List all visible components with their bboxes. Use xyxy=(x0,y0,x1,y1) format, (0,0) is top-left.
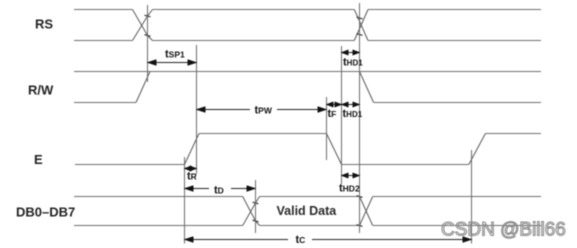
E falling edge xyxy=(327,134,342,165)
RS crossover 2 tick marks xyxy=(357,17,363,35)
label Valid Data xyxy=(277,204,338,218)
watermark CSDN @Bill66 xyxy=(441,220,566,241)
arrow tD right part xyxy=(231,188,256,190)
label tD xyxy=(214,185,224,197)
arrow tPW left part xyxy=(197,109,251,111)
svg-text:RS: RS xyxy=(35,17,53,32)
arrow tHD1 upper xyxy=(342,52,360,54)
RS waveform rails xyxy=(74,10,541,41)
arrow tSP1 xyxy=(148,62,197,64)
svg-text:E: E xyxy=(34,152,43,167)
E rising edge 2 xyxy=(469,134,486,165)
arrow tC right part xyxy=(312,239,472,241)
R/W waveform low rail right xyxy=(374,102,541,104)
svg-text:tHD1: tHD1 xyxy=(343,108,363,120)
arrow tR xyxy=(185,168,197,170)
svg-text:DB0–DB7: DB0–DB7 xyxy=(16,205,75,220)
measurement line L2 x=196.6 xyxy=(196,45,198,174)
R/W waveform high rail xyxy=(74,71,541,73)
DB waveform rails right xyxy=(373,197,541,226)
svg-text:CSDN @Bill66: CSDN @Bill66 xyxy=(441,220,566,241)
svg-text:tF: tF xyxy=(328,108,337,120)
DB crossover 2 tick marks xyxy=(357,196,363,227)
arrow tPW right part xyxy=(277,109,327,111)
svg-text:R/W: R/W xyxy=(28,83,54,98)
DB waveform rails middle xyxy=(260,197,360,226)
signal label E xyxy=(34,152,43,167)
svg-text:tHD1: tHD1 xyxy=(343,57,363,69)
E waveform low rail right xyxy=(342,164,469,166)
label tHD1 upper xyxy=(343,57,363,69)
label tHD2 xyxy=(339,183,360,195)
RS crossover 2 xyxy=(354,10,368,41)
label tC xyxy=(296,234,306,246)
measurement line L7 x=255 xyxy=(255,180,257,233)
svg-text:tC: tC xyxy=(296,234,306,246)
DB crossover 1 tick marks xyxy=(253,202,259,222)
label tSP1 xyxy=(165,49,185,61)
E waveform high rail xyxy=(199,133,327,135)
DB waveform rails left xyxy=(74,197,243,226)
label tHD1 lower xyxy=(343,108,363,120)
svg-text:Valid Data: Valid Data xyxy=(277,204,338,218)
label tF xyxy=(328,108,337,120)
DB crossover 1 xyxy=(243,197,260,226)
signal label R/W xyxy=(28,83,54,98)
arrow tF xyxy=(327,104,342,106)
measurement line L5 x=359.7 xyxy=(359,3,361,233)
RS crossover 1 xyxy=(133,10,153,41)
svg-text:tD: tD xyxy=(214,185,224,197)
svg-text:tR: tR xyxy=(187,171,197,183)
arrow tC left part xyxy=(185,239,289,241)
svg-text:tSP1: tSP1 xyxy=(165,49,185,61)
measurement line L6 x=184.2 xyxy=(184,157,186,244)
label tPW xyxy=(255,105,273,117)
svg-text:tPW: tPW xyxy=(255,105,273,117)
measurement line L3 x=326.1 xyxy=(326,97,328,160)
signal label DB0-DB7 xyxy=(16,205,75,220)
measurement line L8 x=471.3 xyxy=(471,150,473,244)
R/W falling edge xyxy=(360,72,374,103)
E rising edge 1 xyxy=(185,134,200,165)
R/W waveform low rail left xyxy=(74,102,136,104)
arrow tHD1 lower xyxy=(342,104,360,106)
measurement line L4 x=341 xyxy=(341,46,343,184)
measurement line L1 x=147.8 xyxy=(147,5,149,82)
svg-text:tHD2: tHD2 xyxy=(339,183,360,195)
RS crossover 1 tick marks xyxy=(145,15,151,36)
signal label RS xyxy=(35,17,53,32)
E waveform low rail left xyxy=(75,164,185,166)
R/W rising edge xyxy=(136,72,150,103)
arrow tHD2 xyxy=(342,175,360,177)
DB crossover 2 xyxy=(360,197,373,226)
label tR xyxy=(187,171,197,183)
arrow tD left part xyxy=(185,188,210,190)
E waveform high rail right xyxy=(485,133,541,135)
